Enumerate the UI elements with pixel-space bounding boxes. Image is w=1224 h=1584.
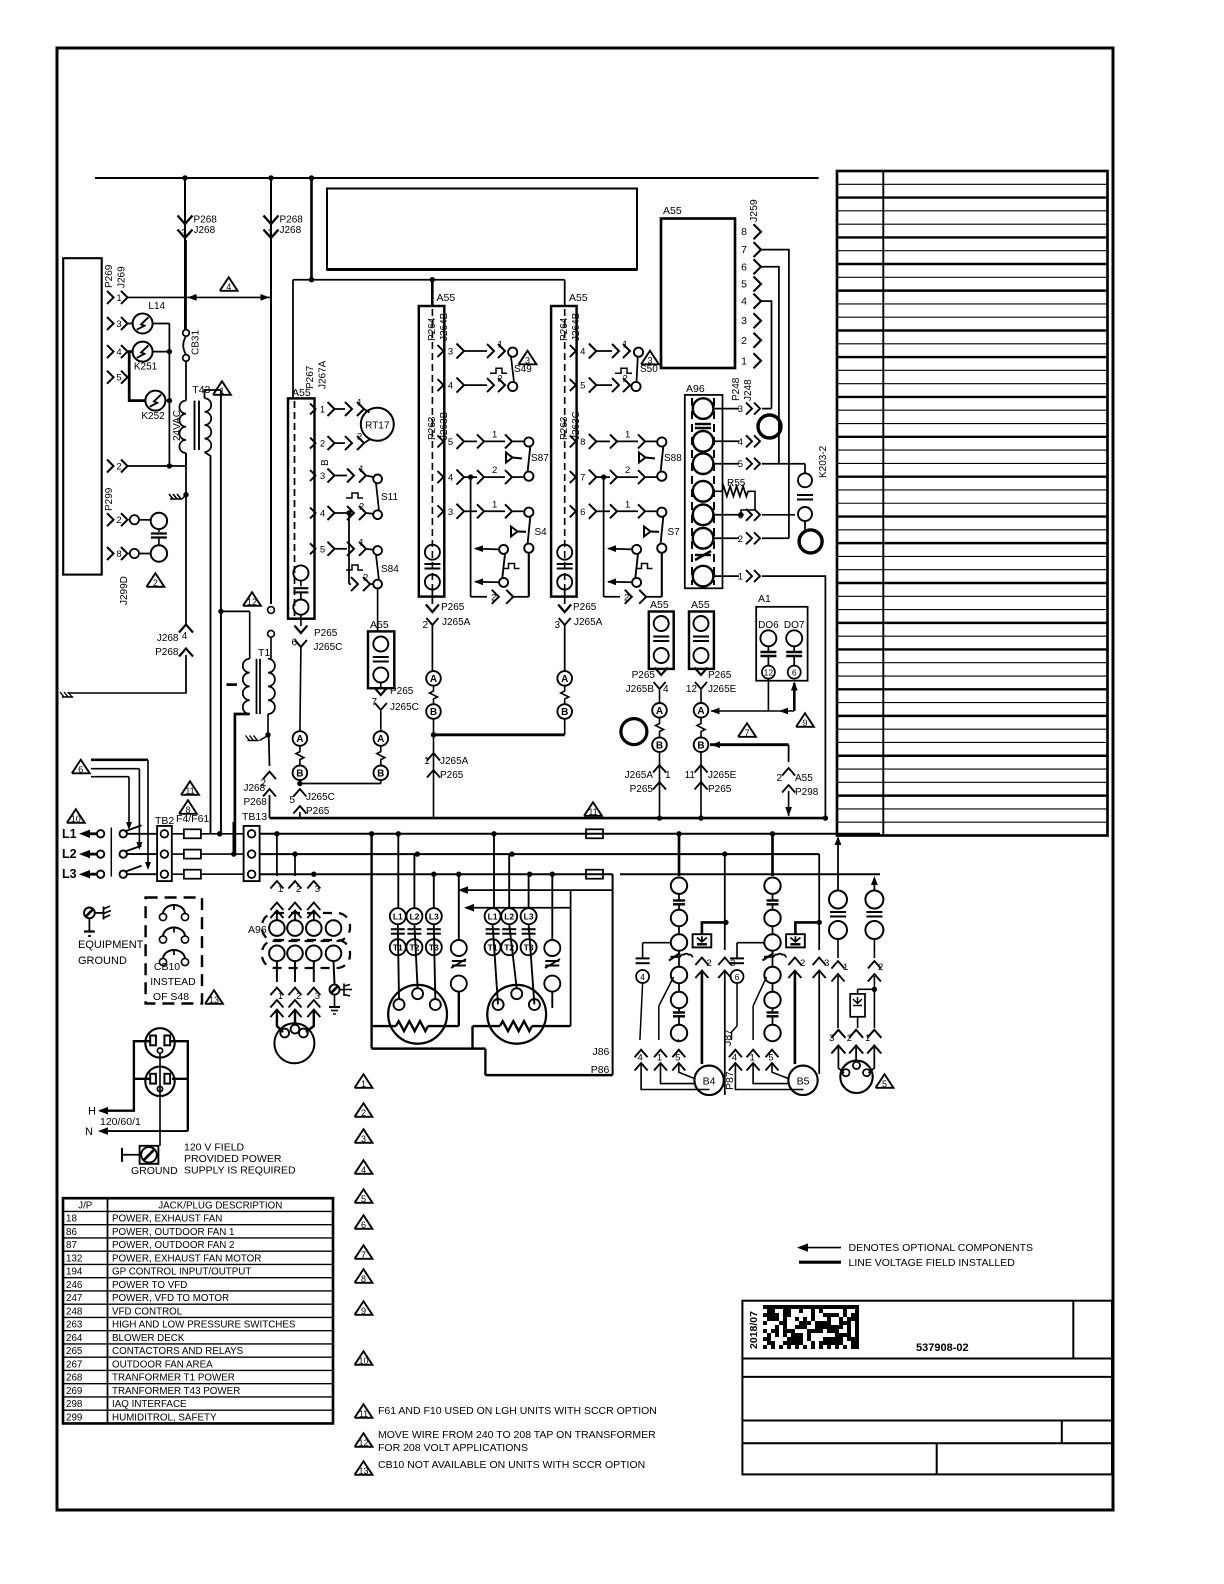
svg-text:J269: J269: [117, 266, 128, 288]
svg-text:A55: A55: [663, 205, 682, 217]
svg-text:P265: P265: [314, 628, 338, 639]
svg-text:P267: P267: [305, 365, 316, 389]
svg-text:132: 132: [66, 1253, 82, 1264]
node A - col2: [426, 671, 441, 686]
svg-text:P87: P87: [724, 1071, 736, 1090]
svg-text:J87: J87: [722, 1029, 734, 1046]
svg-text:4: 4: [732, 1053, 737, 1064]
contact bars A96: [695, 423, 711, 425]
svg-text:6: 6: [361, 1220, 366, 1230]
svg-text:4: 4: [640, 972, 645, 982]
svg-text:1: 1: [625, 499, 630, 510]
svg-text:6: 6: [291, 638, 297, 649]
svg-text:S4: S4: [535, 527, 548, 538]
svg-text:A55: A55: [370, 619, 389, 631]
motor B2 resistor line: [473, 1025, 501, 1027]
svg-text:P265: P265: [632, 670, 656, 681]
plug P265-3 J265A: [564, 590, 566, 605]
svg-text:J264B: J264B: [439, 312, 450, 341]
svg-text:3: 3: [448, 347, 453, 358]
svg-text:2: 2: [624, 593, 629, 604]
svg-text:4: 4: [741, 296, 747, 308]
motor B1 exhaust: [388, 985, 447, 1044]
svg-text:P298: P298: [795, 787, 819, 798]
thermistor RT17: [335, 408, 346, 410]
contact circles A55 P267 bottom: [293, 565, 308, 580]
svg-text:1: 1: [492, 499, 497, 510]
svg-text:P299: P299: [104, 487, 115, 511]
ground rake T43 line: [183, 492, 188, 497]
wire P248-6: [762, 514, 795, 516]
node dot T1 feed: [218, 609, 223, 614]
svg-text:3: 3: [525, 355, 530, 365]
svg-text:L3: L3: [429, 912, 439, 922]
svg-text:120/60/1: 120/60/1: [100, 1116, 141, 1128]
svg-text:1: 1: [657, 1053, 662, 1064]
svg-text:OF S48: OF S48: [153, 991, 189, 1003]
svg-text:P268: P268: [244, 797, 268, 808]
svg-text:11: 11: [185, 786, 194, 796]
svg-text:194: 194: [66, 1267, 83, 1278]
fuse L3 right: [586, 870, 603, 879]
svg-text:2: 2: [361, 1108, 366, 1118]
svg-text:4: 4: [637, 1053, 642, 1064]
svg-text:POWER, EXHAUST FAN: POWER, EXHAUST FAN: [112, 1214, 222, 1225]
wire T43 bottom to L1: [205, 452, 211, 834]
big rectangle block top center: [327, 189, 637, 270]
svg-text:299: 299: [66, 1412, 82, 1423]
svg-text:3: 3: [554, 620, 560, 631]
svg-text:1: 1: [625, 430, 630, 441]
field wiring bracket: [91, 758, 148, 761]
motor B1 resistor line: [372, 1025, 396, 1027]
plug P265-4 J265B: [655, 668, 668, 676]
svg-text:11: 11: [685, 770, 696, 781]
ground screw 120V: [140, 1146, 159, 1164]
wires group1: [369, 831, 374, 836]
svg-text:5: 5: [361, 1194, 366, 1204]
note 13: [355, 1461, 373, 1475]
latch mechanism S4: [468, 474, 473, 479]
note triangle 7: [738, 723, 756, 737]
arrow feeds into contactor area: [612, 874, 614, 1075]
svg-text:J265A: J265A: [625, 770, 654, 781]
svg-text:4: 4: [448, 381, 453, 392]
svg-text:12: 12: [686, 684, 698, 695]
wire pin2 row: [128, 465, 187, 467]
svg-text:1: 1: [267, 228, 273, 239]
under motor loop 2: [484, 1049, 486, 1076]
wire S7 bottom latch loop: [661, 553, 663, 597]
svg-text:248: 248: [66, 1306, 83, 1317]
wire J259 pin7: [761, 250, 789, 539]
svg-text:J248: J248: [743, 379, 754, 401]
svg-text:A: A: [656, 706, 663, 717]
svg-text:J268: J268: [194, 225, 216, 236]
table jack plug description: [63, 1198, 333, 1423]
svg-text:5: 5: [448, 437, 453, 448]
svg-text:3: 3: [448, 507, 453, 518]
svg-text:S87: S87: [531, 453, 549, 464]
svg-text:P265: P265: [708, 670, 732, 681]
svg-text:J265E: J265E: [708, 684, 737, 695]
svg-text:J265E: J265E: [708, 770, 737, 781]
wire to ground: [68, 692, 187, 694]
svg-text:P265: P265: [630, 784, 654, 795]
svg-text:J265C: J265C: [306, 792, 335, 803]
svg-text:1: 1: [749, 1053, 754, 1064]
contactor aux column 2: [544, 940, 560, 956]
svg-text:L2: L2: [62, 847, 77, 861]
svg-text:2: 2: [623, 374, 628, 385]
svg-text:A: A: [697, 706, 704, 717]
node B - col2: [426, 704, 441, 719]
wire T43 right winding top to L1: [220, 390, 222, 834]
jack J265C-5 P265: [299, 779, 301, 783]
svg-text:9: 9: [361, 1306, 366, 1316]
switch S88: [657, 437, 666, 446]
svg-text:P86: P86: [591, 1064, 610, 1076]
svg-text:3: 3: [315, 884, 320, 895]
svg-text:4: 4: [448, 473, 453, 484]
svg-text:P263: P263: [427, 416, 438, 440]
plug P265-7 J265C: [380, 683, 382, 689]
svg-text:10: 10: [71, 814, 81, 824]
svg-text:1: 1: [278, 884, 283, 895]
svg-text:1: 1: [492, 430, 497, 441]
relay box fan1: [693, 934, 712, 947]
svg-text:13: 13: [209, 995, 219, 1005]
svg-text:1: 1: [361, 1079, 366, 1089]
svg-text:B: B: [320, 459, 331, 466]
svg-text:5: 5: [580, 381, 585, 392]
wire horizontal feed y=280: [310, 178, 313, 280]
svg-text:TB13: TB13: [242, 811, 267, 823]
svg-text:N: N: [85, 1126, 93, 1138]
note triangle 4: [220, 277, 238, 291]
wire J259 pin4: [761, 301, 772, 409]
svg-text:J265B: J265B: [626, 684, 655, 695]
svg-text:247: 247: [66, 1293, 82, 1304]
wire L1 bus: [260, 833, 880, 835]
svg-text:J265A: J265A: [440, 756, 469, 767]
svg-text:A55: A55: [650, 599, 669, 611]
svg-text:4: 4: [361, 1165, 366, 1175]
wire T43 left winding bottom: [185, 453, 187, 466]
legend line voltage: [799, 1261, 841, 1264]
plug J268-2 P268: [268, 735, 271, 766]
jack 3 2 1 right connector: [831, 1030, 845, 1038]
svg-text:K252: K252: [141, 411, 165, 422]
round connector plug: [838, 1046, 844, 1074]
node B - col3: [557, 704, 572, 719]
svg-text:5: 5: [738, 459, 743, 470]
svg-text:4: 4: [738, 437, 743, 448]
wire lamp output bus: [168, 324, 170, 467]
fan 2 relay chain: [770, 831, 775, 836]
svg-text:8: 8: [361, 1274, 366, 1284]
plug P265-12 J265E: [695, 668, 708, 676]
lamp L14: [133, 314, 153, 334]
svg-text:9: 9: [802, 718, 807, 728]
svg-text:A: A: [296, 734, 303, 745]
svg-text:12: 12: [764, 668, 774, 678]
contact circles P299: [130, 515, 139, 524]
svg-text:POWER, OUTDOOR FAN 2: POWER, OUTDOOR FAN 2: [112, 1240, 234, 1251]
svg-text:P265: P265: [708, 784, 732, 795]
latch mechanism S7: [601, 474, 606, 479]
wire pin1 row with dimension arrows: [128, 296, 272, 298]
svg-text:2: 2: [296, 991, 301, 1002]
plug P265-6 J265C: [300, 615, 302, 626]
note 11: [355, 1404, 373, 1418]
svg-text:J265A: J265A: [574, 617, 603, 628]
wire S4 bottom latch loop: [528, 553, 530, 597]
wire 24V top bus: [95, 177, 819, 179]
svg-text:269: 269: [66, 1386, 82, 1397]
svg-text:1: 1: [738, 572, 743, 583]
svg-text:DO7: DO7: [784, 620, 805, 631]
motor B5: [788, 1066, 817, 1095]
svg-text:CB10: CB10: [154, 961, 180, 973]
svg-text:J263B: J263B: [439, 411, 450, 440]
svg-text:A: A: [377, 734, 384, 745]
node A - col3: [557, 671, 572, 686]
svg-text:86: 86: [66, 1227, 77, 1238]
svg-text:2: 2: [491, 593, 496, 604]
svg-text:5: 5: [289, 795, 295, 806]
svg-text:GROUND: GROUND: [78, 955, 127, 967]
svg-text:12: 12: [358, 1438, 368, 1448]
svg-text:J299D: J299D: [119, 576, 130, 605]
svg-text:VFD CONTROL: VFD CONTROL: [112, 1306, 183, 1317]
ground rake left: [62, 696, 73, 698]
wire pin2b row: [128, 519, 131, 521]
note triangle 3: [519, 351, 537, 365]
svg-text:2: 2: [492, 465, 497, 476]
node B - mid chain: [374, 766, 389, 781]
motor B2 exhaust: [487, 985, 546, 1044]
wire thick mid bus: [434, 733, 565, 736]
svg-text:1: 1: [741, 355, 747, 367]
svg-text:POWER, VFD TO MOTOR: POWER, VFD TO MOTOR: [112, 1293, 229, 1304]
wire L2 bus: [260, 853, 820, 855]
svg-text:JACK/PLUG DESCRIPTION: JACK/PLUG DESCRIPTION: [158, 1200, 282, 1211]
screw terminal A96 right: [334, 961, 335, 985]
svg-text:2: 2: [116, 462, 121, 473]
svg-text:A55: A55: [569, 292, 588, 304]
jacks out of A96 to motor: [276, 961, 278, 982]
svg-text:IAQ INTERFACE: IAQ INTERFACE: [112, 1399, 187, 1410]
svg-text:POWER, EXHAUST FAN MOTOR: POWER, EXHAUST FAN MOTOR: [112, 1253, 261, 1264]
svg-text:MOVE WIRE FROM 240 TO 208 TAP: MOVE WIRE FROM 240 TO 208 TAP ON TRANSFO…: [378, 1429, 656, 1441]
svg-text:5: 5: [741, 279, 747, 291]
svg-text:B: B: [697, 740, 704, 751]
svg-text:2: 2: [625, 465, 630, 476]
fuse L1 right: [586, 829, 603, 838]
svg-text:246: 246: [66, 1280, 83, 1291]
revision table right side: [837, 171, 1108, 836]
svg-text:2: 2: [153, 578, 158, 588]
svg-text:OUTDOOR FAN AREA: OUTDOOR FAN AREA: [112, 1359, 213, 1370]
note triangle 6: [72, 760, 90, 774]
svg-text:1: 1: [843, 962, 848, 973]
svg-text:3: 3: [741, 315, 747, 327]
svg-text:2: 2: [422, 620, 428, 631]
svg-text:P248: P248: [731, 377, 742, 401]
note triangle 11b: [584, 802, 602, 816]
svg-text:A96: A96: [686, 383, 705, 395]
breaker CB10 dashed box: [146, 898, 202, 1004]
svg-text:2: 2: [847, 1033, 852, 1044]
plug P268-3 J268: [184, 178, 186, 240]
svg-text:3: 3: [320, 471, 325, 482]
svg-text:4: 4: [226, 282, 231, 292]
svg-text:6: 6: [741, 261, 747, 273]
svg-text:2: 2: [738, 534, 743, 545]
wire P248-1 right: [762, 576, 825, 818]
node dot 2: [268, 175, 273, 180]
svg-text:CB10 NOT AVAILABLE ON UNITS WI: CB10 NOT AVAILABLE ON UNITS WITH SCCR OP…: [378, 1459, 645, 1471]
svg-text:5: 5: [116, 373, 121, 384]
svg-text:J259: J259: [748, 199, 760, 222]
relay coil K251: [133, 342, 153, 362]
svg-text:1: 1: [424, 756, 430, 767]
svg-text:3: 3: [315, 991, 320, 1002]
svg-text:3: 3: [116, 319, 121, 330]
svg-text:J86: J86: [592, 1046, 609, 1058]
svg-text:2: 2: [776, 773, 782, 784]
svg-text:L3: L3: [62, 867, 77, 881]
svg-text:8: 8: [580, 437, 585, 448]
svg-text:2: 2: [707, 958, 712, 969]
node A - mid chain: [374, 731, 389, 746]
switch linkage bar: [110, 828, 112, 877]
wire L3 bus: [260, 873, 613, 875]
svg-text:B: B: [377, 769, 384, 780]
svg-text:B5: B5: [797, 1076, 810, 1088]
svg-text:265: 265: [66, 1346, 83, 1357]
svg-text:F61 AND F10 USED ON LGH UNITS: F61 AND F10 USED ON LGH UNITS WITH SCCR …: [378, 1405, 657, 1417]
svg-text:J267A: J267A: [318, 360, 329, 389]
svg-text:P268: P268: [280, 215, 304, 226]
svg-text:INSTEAD: INSTEAD: [150, 976, 196, 988]
svg-text:120 V FIELD: 120 V FIELD: [184, 1142, 245, 1154]
svg-text:P265: P265: [573, 602, 597, 613]
node dots TB13 feed: [217, 831, 222, 836]
jack J265E-11: [695, 765, 708, 773]
svg-text:K203-2: K203-2: [818, 445, 829, 478]
svg-text:S84: S84: [381, 564, 399, 575]
svg-text:298: 298: [66, 1399, 83, 1410]
svg-text:B4: B4: [703, 1076, 716, 1088]
under motor loop 1: [370, 834, 372, 1049]
wire L2 drop fan1: [722, 851, 727, 856]
node A - col5: [694, 703, 709, 718]
switch S4: [524, 508, 533, 517]
contactor aux column 1: [451, 940, 467, 956]
thick ring marker 2: [799, 530, 822, 553]
svg-text:B: B: [561, 707, 568, 718]
connector P269 J269 box: [63, 258, 101, 574]
svg-text:P265: P265: [441, 602, 465, 613]
svg-text:1: 1: [278, 991, 283, 1002]
svg-text:S88: S88: [664, 453, 682, 464]
svg-text:6: 6: [792, 668, 797, 678]
chain right 1: [837, 844, 839, 890]
svg-text:5: 5: [768, 1053, 773, 1064]
note triangle 8: [179, 800, 197, 814]
contactor K contacts group 1: [390, 908, 406, 924]
svg-text:1: 1: [623, 340, 628, 351]
thick ring marker 1: [758, 415, 781, 438]
svg-text:2: 2: [878, 962, 883, 973]
svg-text:4: 4: [320, 509, 325, 520]
svg-text:GP CONTROL INPUT/OUTPUT: GP CONTROL INPUT/OUTPUT: [112, 1267, 251, 1278]
svg-text:5: 5: [882, 1079, 887, 1089]
aux cap fan2: [737, 942, 764, 944]
svg-text:T3: T3: [524, 943, 534, 953]
fan 1 relay chain: [676, 831, 681, 836]
wire down to A: [300, 647, 301, 731]
svg-text:4: 4: [663, 684, 669, 695]
svg-text:P269: P269: [104, 264, 115, 288]
svg-text:6: 6: [735, 972, 740, 982]
wire B arrow feed: [710, 743, 789, 746]
svg-text:13: 13: [358, 1466, 368, 1476]
svg-text:1: 1: [498, 340, 503, 351]
svg-text:537908-02: 537908-02: [916, 1342, 969, 1354]
svg-text:PROVIDED POWER: PROVIDED POWER: [184, 1153, 282, 1165]
svg-text:2018/07: 2018/07: [748, 1311, 760, 1349]
svg-text:K251: K251: [134, 362, 158, 373]
node A - P267 chain: [293, 731, 308, 746]
svg-text:11: 11: [588, 807, 597, 817]
note triangle 9: [796, 713, 814, 727]
node B - col4: [652, 737, 667, 752]
svg-text:L1: L1: [62, 827, 77, 841]
svg-text:1: 1: [665, 770, 671, 781]
svg-text:6: 6: [78, 764, 83, 774]
svg-text:2: 2: [296, 884, 301, 895]
wire receptacle ground: [159, 1053, 161, 1146]
svg-text:P265: P265: [440, 770, 464, 781]
barcode datamatrix: [763, 1305, 859, 1349]
note triangle 2: [146, 573, 164, 587]
svg-text:F4/F61: F4/F61: [176, 813, 209, 825]
svg-text:263: 263: [66, 1320, 83, 1331]
plug P265-2 J265A: [431, 590, 433, 605]
svg-text:P268: P268: [194, 215, 218, 226]
svg-text:87: 87: [66, 1240, 77, 1251]
svg-text:POWER TO VFD: POWER TO VFD: [112, 1280, 187, 1291]
svg-text:P264: P264: [427, 317, 438, 341]
svg-text:POWER, OUTDOOR FAN 1: POWER, OUTDOOR FAN 1: [112, 1227, 234, 1238]
relay coil K252: [145, 391, 165, 411]
note triangle list: [355, 1074, 373, 1088]
title block: [742, 1301, 1112, 1475]
svg-text:4: 4: [580, 347, 585, 358]
svg-text:3: 3: [361, 1134, 366, 1144]
svg-text:3: 3: [181, 228, 187, 239]
diagonal fan2: [753, 977, 766, 1006]
svg-text:J265C: J265C: [390, 702, 419, 713]
wire K252 bracket: [129, 352, 145, 401]
svg-text:10: 10: [358, 1356, 368, 1366]
note triangle 13: [205, 990, 223, 1004]
note triangle 5: [876, 1074, 894, 1088]
svg-text:1: 1: [865, 1033, 870, 1044]
